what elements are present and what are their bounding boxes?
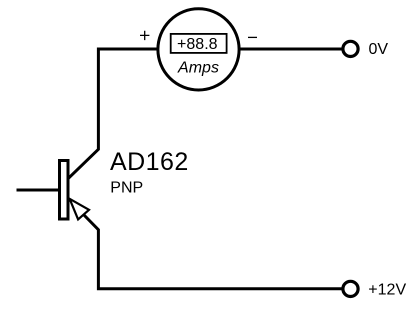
svg-text:+88.8: +88.8: [177, 36, 218, 53]
ammeter M1 display window: [171, 34, 227, 53]
terminal 0V pin: [343, 41, 358, 56]
wire collector path: bar to ammeter: [68, 49, 159, 179]
transistor Q1 emitter arrow (PNP, pointing to bar): [70, 199, 89, 220]
terminal +12V pin: [343, 281, 358, 296]
svg-text:PNP: PNP: [110, 180, 143, 197]
wire emitter to bottom and +12V terminal: [84, 215, 344, 289]
ammeter M1 body: [158, 9, 239, 90]
svg-text:Amps: Amps: [177, 60, 219, 77]
svg-text:+12V: +12V: [368, 282, 406, 299]
ammeter plus polarity mark: [140, 31, 149, 40]
wire base lead: [17, 189, 62, 192]
svg-text:AD162: AD162: [110, 148, 189, 176]
transistor Q1 base bar: [60, 161, 69, 220]
svg-text:0V: 0V: [369, 41, 389, 58]
ammeter minus polarity mark: [248, 36, 257, 38]
wire ammeter to 0V terminal: [239, 48, 344, 51]
